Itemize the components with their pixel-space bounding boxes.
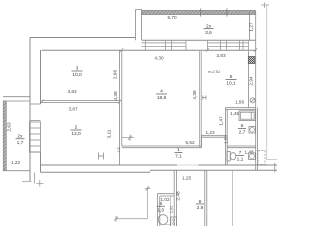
wall between room3 and room2 <box>42 101 120 103</box>
bottom wall <box>41 164 278 166</box>
window room5 <box>208 41 249 50</box>
svg-text:5,62: 5,62 <box>185 140 195 145</box>
svg-text:10,1: 10,1 <box>226 81 236 87</box>
svg-text:1,22: 1,22 <box>11 160 21 165</box>
svg-text:1,7: 1,7 <box>17 140 24 146</box>
dashed cupboard <box>258 151 265 165</box>
svg-text:18,8: 18,8 <box>157 95 167 101</box>
dim ticks <box>114 187 150 222</box>
svg-text:1,1: 1,1 <box>237 157 244 163</box>
svg-text:4,38: 4,38 <box>192 90 197 100</box>
right exterior wall <box>256 40 258 170</box>
svg-text:1,25: 1,25 <box>182 175 192 180</box>
dim ticks 3,83 <box>40 100 121 104</box>
svg-text:1,45: 1,45 <box>230 111 240 116</box>
svg-text:1,02: 1,02 <box>168 206 173 214</box>
svg-text:2,9: 2,9 <box>197 205 204 211</box>
corridor upper wall right <box>202 136 226 138</box>
window room4 <box>142 41 187 50</box>
svg-text:2,48: 2,48 <box>175 191 180 201</box>
dimension cross top-right <box>261 3 269 8</box>
svg-text:3,6: 3,6 <box>205 30 212 36</box>
svg-text:5,70: 5,70 <box>167 15 177 20</box>
svg-text:4,38: 4,38 <box>113 91 118 101</box>
svg-text:2,83: 2,83 <box>216 53 226 58</box>
wall bath / wc <box>227 146 256 148</box>
top wall outer line <box>30 38 256 41</box>
door knob circle <box>250 98 255 103</box>
lower unit wall A <box>174 170 176 226</box>
svg-text:1,47: 1,47 <box>219 116 224 126</box>
corridor wall jog <box>201 136 203 148</box>
balcony door jambs <box>207 41 209 50</box>
stove <box>171 217 177 227</box>
svg-text:1,0: 1,0 <box>157 207 164 213</box>
svg-text:1,56: 1,56 <box>235 100 245 105</box>
left balcony top wall <box>3 97 30 101</box>
dim ticks top <box>120 48 257 52</box>
vent shaft box <box>248 57 255 64</box>
bottom wall end tick <box>274 163 276 173</box>
building outline right edge <box>267 5 277 160</box>
balcony top right wall <box>250 11 256 41</box>
room5 right wall / shaft <box>247 51 249 108</box>
svg-text:3,11: 3,11 <box>107 129 112 138</box>
svg-text:3,83: 3,83 <box>67 89 77 94</box>
svg-text:2,94: 2,94 <box>248 76 253 86</box>
window block ladder symbol <box>30 122 41 152</box>
balcony door jamb lines left wall <box>30 104 41 152</box>
svg-text:10,0: 10,0 <box>72 72 82 78</box>
svg-text:4,30: 4,30 <box>154 56 164 61</box>
lower unit wall B <box>205 170 207 226</box>
top wall inner line <box>42 49 256 51</box>
wc sink <box>249 153 256 160</box>
balcony top left wall <box>136 10 143 41</box>
bathroom left wall <box>226 108 228 166</box>
lower unit wall C <box>232 170 234 226</box>
toilet <box>227 152 236 162</box>
corridor top wall <box>122 146 202 148</box>
entry dim lines lower unit <box>116 186 148 218</box>
counter strip line <box>160 196 171 226</box>
kitchen sink circle <box>158 215 168 225</box>
svg-text:3,87: 3,87 <box>68 107 78 112</box>
door ticks room2 <box>99 153 104 160</box>
washbasin <box>249 127 256 134</box>
balcony top rail (hatched) <box>142 11 255 15</box>
svg-text:2,66: 2,66 <box>113 70 118 80</box>
svg-text:н=2,51: н=2,51 <box>208 69 220 74</box>
bathroom top wall <box>226 108 256 110</box>
svg-text:1,27: 1,27 <box>249 22 254 32</box>
svg-text:1,5: 1,5 <box>117 147 121 152</box>
door ticks room5 entry <box>203 96 206 100</box>
svg-text:1,50: 1,50 <box>224 135 229 145</box>
svg-text:1,23: 1,23 <box>205 130 215 135</box>
dim line 3,11 tick <box>122 135 134 142</box>
wall room4 / room5 <box>200 51 202 147</box>
step outside bottom-left <box>22 173 44 187</box>
svg-text:2,63: 2,63 <box>7 122 12 132</box>
wall rooms3,2 / room4,corridor <box>120 50 122 165</box>
svg-text:7,1: 7,1 <box>175 154 182 160</box>
svg-text:2,7: 2,7 <box>239 130 246 136</box>
kitchen block wall <box>158 194 175 226</box>
left exterior wall <box>29 38 31 182</box>
left balcony bottom wall <box>3 170 30 172</box>
svg-text:12,0: 12,0 <box>71 131 81 137</box>
bathtub <box>239 111 256 121</box>
left balcony rail (hatched) <box>3 101 6 171</box>
